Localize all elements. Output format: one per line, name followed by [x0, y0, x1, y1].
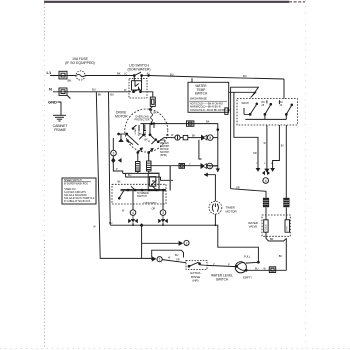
label W at lid switch N input [124, 88, 127, 92]
label Y on terminal 6 wire [189, 163, 191, 166]
svg-text:3: 3 [113, 152, 115, 156]
motor internal centrifugal switch contacts [139, 134, 154, 142]
wire motor top entry [149, 109, 157, 115]
wire right vertical to timer motor [204, 175, 215, 202]
label EXTRA RINSE (HR) [190, 271, 200, 282]
arrows into terminal 5 [201, 135, 207, 141]
svg-text:FRAME: FRAME [54, 128, 67, 132]
label OR near terminal 3 lower [152, 207, 156, 210]
svg-text:BU: BU [152, 181, 156, 183]
motor winding W2 (main) [147, 153, 152, 172]
svg-text:START: START [134, 127, 137, 135]
label start winding (vertical tiny) [134, 127, 147, 137]
label W on timer drop [264, 142, 267, 145]
svg-text:WASH: WASH [242, 102, 249, 105]
wire coils into valve box [266, 208, 286, 220]
label BY on timer drop [281, 144, 285, 147]
junction diamond below terminal 3 [111, 158, 121, 164]
svg-text:(DOM WATER): (DOM WATER) [128, 68, 151, 72]
label W at bus left corner [93, 226, 96, 229]
wire timer to terminal 4 center [266, 125, 268, 170]
arrows into terminal 6 [201, 163, 207, 169]
wire timer to water valve solenoid 2 [285, 125, 287, 198]
arrow at left end of timer motor feed [204, 173, 208, 177]
label 10A FUSE (IF SO EQUIPPED) [65, 57, 95, 65]
motor internal wire overload to center [141, 122, 167, 135]
svg-text:OR: OR [236, 186, 240, 189]
svg-text:IF CABLE AT SIG BLOCK: IF CABLE AT SIG BLOCK [64, 200, 91, 203]
arrows below terminal 4 lower [128, 215, 138, 225]
wire step between 5 and 6 lines [199, 140, 202, 159]
label BU right section of top wire [243, 74, 247, 78]
timer contact group 3 [279, 100, 292, 115]
arrows below terminal 3 lower [158, 215, 168, 225]
labels BU W on return wire [255, 267, 267, 270]
lid switch inner mechanism box [132, 77, 142, 91]
label LID SWITCH (DOME WATER) [128, 64, 151, 72]
timer contact group 2 [262, 100, 272, 115]
wire main winding to terminal 6 line [151, 165, 218, 167]
svg-text:OR: OR [152, 207, 156, 210]
svg-text:BY: BY [281, 144, 285, 147]
label BK on L1 wire [68, 79, 72, 83]
svg-text:BK: BK [279, 255, 283, 258]
lid switch contact on L1 wire [133, 72, 149, 76]
label EMPTY [243, 275, 252, 279]
svg-text:1: 1 [159, 258, 161, 262]
svg-text:MOTOR: MOTOR [115, 115, 128, 119]
node L1 [47, 70, 52, 75]
svg-text:BU: BU [109, 222, 113, 225]
full contact dot at top of water level switch [246, 261, 259, 263]
ground (cabinet frame) [53, 115, 66, 121]
terminal 1 (circled) [157, 257, 162, 262]
label BK on left vertical [98, 92, 102, 96]
terminal 6 (circled) [207, 163, 218, 169]
overload protector (inside motor) [135, 111, 153, 122]
svg-text:MOTOR: MOTOR [226, 209, 238, 213]
speed switch dashed box [112, 184, 166, 204]
wire fuse to lid switch [85, 75, 134, 77]
wire timer motor to bottom bus [214, 214, 216, 225]
connector (small box) on terminal 5 wire [183, 135, 188, 139]
svg-text:SWITCH: SWITCH [195, 92, 208, 96]
terminal connector on L1 line [59, 71, 67, 79]
svg-text:LC: LC [124, 71, 127, 75]
connector (small box) on terminal 6 wire [179, 164, 185, 169]
wire thick vertical through speed switch area [169, 166, 171, 191]
connector at water temp box right edge [225, 108, 228, 115]
connector on return wire [269, 267, 275, 273]
motor speed contact arm left [118, 133, 139, 145]
wire speed switch vertical feed [161, 177, 174, 180]
wire water temp box top tap to main wire [191, 78, 193, 82]
wire water valve output [266, 232, 286, 270]
drive motor M1 (dashed circle) [125, 109, 168, 152]
label BR on valve output [270, 238, 274, 241]
svg-text:(SPIN): (SPIN) [160, 155, 167, 157]
extra rinse switch dashed box [186, 260, 207, 269]
terminal 2 (circled) [184, 240, 189, 245]
svg-text:BK: BK [154, 112, 158, 115]
label BK on valve down wire [279, 255, 283, 258]
wire branch to extra rinse upper throw [152, 250, 184, 257]
terminal 4 (circled, timer) [263, 178, 269, 184]
svg-text:BU: BU [175, 254, 179, 257]
label BK W on terminal 5 wire [166, 134, 174, 137]
page left dotted border [44, 0, 46, 348]
arrows converging into terminal 4 [256, 168, 275, 175]
label BU on N wire [92, 88, 96, 92]
timer contact group 1 (WASH) [242, 102, 258, 116]
wire speed switch to terminal 4 lower [132, 191, 134, 210]
page right dotted border [305, 0, 307, 348]
wire water temp box to timer loop inner [229, 92, 258, 169]
legend box (speed switch notes) [62, 178, 96, 204]
svg-text:EXPORT: EXPORT [160, 146, 170, 148]
svg-text:BU: BU [110, 92, 114, 96]
page top border line [44, 1, 305, 3]
label TIMER MOTOR [226, 206, 238, 214]
label SPEED SWITCH [137, 192, 158, 205]
wire water temp box to timer loop outer [231, 87, 259, 189]
wire second vertical from N line down to speed switch [109, 92, 111, 225]
label BU on top main wire [170, 73, 174, 77]
wire left vertical from N line down to bottom bus [96, 92, 100, 258]
timer (dashed box) [237, 99, 297, 125]
svg-text:5: 5 [209, 136, 211, 140]
wire to water valve solenoid 1 [231, 189, 266, 198]
svg-text:A1: A1 [147, 71, 151, 75]
lid switch dashed enclosure [129, 79, 147, 98]
wire terminal 3 upper to junction [113, 138, 160, 177]
svg-text:BU: BU [170, 73, 174, 77]
svg-text:BU: BU [243, 74, 247, 78]
wire extra rinse to water level switch [207, 265, 237, 266]
wire L1 to fuse [50, 75, 76, 77]
svg-text:HOT: HOT [287, 225, 289, 230]
timer motor (dashed circle) [209, 201, 222, 214]
svg-text:OR: OR [253, 152, 257, 155]
terminal 3 upper (circled) [111, 150, 117, 156]
label BK on upper right wire [206, 120, 210, 124]
svg-text:S-04 MAX CIRCUITS: S-04 MAX CIRCUITS [64, 191, 86, 194]
wire windings bottom join [138, 171, 149, 173]
terminal 4 lower (circled) [130, 210, 136, 216]
label W on wire to extra rinse [168, 257, 180, 262]
arrow into terminal 1 [151, 256, 157, 261]
label P on wire below terminal 3 [116, 168, 118, 171]
svg-text:(IF SO EQUIPPED): (IF SO EQUIPPED) [65, 61, 95, 65]
terminal 3 lower (circled) [160, 210, 166, 216]
wire GND to ground symbol [58, 102, 62, 115]
svg-text:BU: BU [92, 88, 96, 92]
svg-text:EMPTY: EMPTY [243, 275, 252, 279]
svg-text:BK: BK [98, 92, 102, 96]
wire water level switch to valve return [246, 269, 286, 271]
wire motor to terminal 5 [157, 138, 201, 143]
speed switch contact bar [121, 189, 167, 190]
labels at terminal 4 arrow tops [256, 163, 273, 165]
label DRIVE MOTOR [115, 110, 128, 118]
labels above speed switch box [118, 181, 156, 184]
svg-text:COLD: COLD [265, 224, 267, 230]
fuse F1 10A (dashed circle) [76, 71, 85, 80]
svg-text:4: 4 [265, 179, 267, 183]
svg-text:BK: BK [166, 134, 170, 137]
svg-text:SWITCH: SWITCH [137, 195, 147, 198]
water valve solenoid coil 1 [263, 198, 268, 207]
svg-text:TURBOMATIC: TURBOMATIC [143, 201, 158, 204]
svg-text:3: 3 [162, 211, 164, 215]
svg-text:WASH/RINSE: WASH/RINSE [190, 97, 207, 101]
wire lid switch to timer (top main wire, slight scan skew) [150, 76, 285, 80]
svg-text:SWITCH: SWITCH [216, 277, 229, 281]
terminal connector on N line [59, 88, 70, 98]
svg-text:PROTECTOR: PROTECTOR [135, 118, 150, 121]
label BU on bottom bus [109, 222, 113, 225]
wire bus to terminal 2 [142, 225, 180, 258]
water temp switch box [188, 82, 229, 112]
wire top main wire corner down into timer [283, 79, 285, 99]
label A1 at lid switch output [147, 71, 151, 75]
label WATER LEVEL SWITCH [211, 274, 233, 282]
winding contacts inside motor bottom [137, 148, 153, 153]
wire motor upper right to corner [166, 124, 218, 172]
motor interior extra contacts and marks [127, 123, 157, 145]
svg-text:SWITCH: SWITCH [160, 152, 169, 154]
wire speed switch to terminal 3 lower [162, 191, 164, 210]
svg-text:BK: BK [117, 71, 121, 75]
label BU on second vertical [110, 92, 114, 96]
label OR on valve feed wire [236, 186, 240, 189]
page bottom dotted border [0, 348, 350, 350]
wire terminal 1 to extra rinse switch [162, 260, 186, 263]
water valve solenoid coil 2 [284, 198, 289, 207]
thermal protector (small circle) on terminal 5 wire [175, 135, 180, 140]
svg-text:BK: BK [206, 120, 210, 124]
water valve inner element left [264, 220, 268, 232]
timer internal bus line [245, 115, 286, 119]
svg-text:OR: OR [176, 258, 180, 261]
motor cam switch text block right of motor [160, 139, 170, 157]
arrow into terminal 2 [179, 241, 184, 246]
extra rinse switch contact [188, 262, 207, 267]
water valve dashed box [262, 215, 290, 236]
junction dots on bottom bus [132, 223, 216, 227]
svg-text:(HR): (HR) [192, 279, 198, 283]
node N [49, 86, 52, 91]
svg-text:IN SUPER WASH POS: IN SUPER WASH POS [64, 183, 88, 186]
connector in lid-switch-to-motor wire [150, 97, 155, 106]
arrow at bottom of right vertical [216, 168, 220, 172]
svg-text:BR: BR [270, 238, 274, 241]
junction dot on right vertical [217, 129, 219, 131]
water temp switch table rows [189, 101, 231, 112]
connector on upper right wire [187, 121, 194, 126]
node GND [48, 100, 57, 105]
wire lid switch to drive motor (vertical drop) [147, 92, 153, 109]
label FULL [244, 255, 251, 259]
water level switch (circle) [235, 262, 247, 273]
svg-text:S10-GA-4 SOLENOID: S10-GA-4 SOLENOID [64, 194, 87, 197]
svg-text:BK: BK [192, 134, 196, 137]
label W near terminal 4 lower [122, 210, 125, 213]
svg-text:L1: L1 [47, 70, 52, 75]
bottom bus wire [110, 225, 258, 261]
speed switch contact dots and arms [119, 186, 165, 199]
motor winding W1 (start) [136, 153, 141, 172]
wire N to lid switch [53, 91, 131, 93]
svg-text:BK: BK [68, 79, 72, 83]
label WATER VALVE [248, 221, 258, 229]
svg-text:*USED ON: *USED ON [64, 189, 76, 191]
svg-text:4: 4 [132, 211, 134, 215]
svg-text:VALVE: VALVE [249, 225, 258, 229]
label BK on timer drop [253, 152, 257, 155]
svg-text:BK: BK [118, 181, 122, 183]
wire left leg to terminal 1 [100, 257, 153, 259]
svg-text:MAIN: MAIN [144, 131, 147, 137]
svg-text:FULL: FULL [244, 255, 251, 259]
label BU on branch wire [175, 254, 179, 257]
svg-text:S10-GA-03 AUTO TEMP CLK: S10-GA-03 AUTO TEMP CLK [64, 197, 95, 200]
motor switch small box above speed switch [148, 173, 159, 190]
wire timer to terminal 4 right branch [273, 125, 280, 170]
svg-text:MOTOR: MOTOR [160, 149, 169, 151]
svg-text:GND: GND [48, 100, 57, 105]
svg-text:BU: BU [255, 267, 259, 270]
svg-text:DRIVEN: DRIVEN [160, 143, 169, 145]
label BK LC at lid switch input [117, 71, 127, 75]
label V on wire to water level switch [213, 263, 230, 267]
label W on N wire [69, 96, 72, 100]
svg-text:6: 6 [209, 164, 211, 168]
label CABINET FRAME [53, 124, 68, 132]
svg-text:BU: BU [139, 134, 142, 136]
svg-text:2: 2 [186, 241, 188, 245]
label WASH/RINSE [190, 97, 207, 101]
lid switch lower contact on N wire [133, 89, 147, 93]
label BK before terminal 5 [192, 134, 196, 137]
svg-text:N: N [49, 86, 52, 91]
terminal 5 (circled) [207, 135, 217, 141]
label WATER TEMP SWITCH [195, 84, 208, 96]
water valve inner element right [285, 220, 290, 232]
label BU near winding join [128, 174, 132, 177]
